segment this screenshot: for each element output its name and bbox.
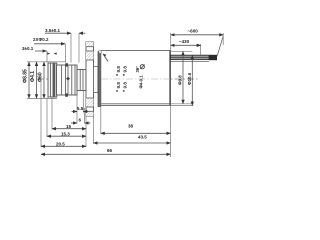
svg-text:3±0.1: 3±0.1	[22, 46, 34, 51]
svg-text:15: 15	[66, 124, 72, 129]
svg-text:6: 6	[79, 117, 82, 122]
svg-text:Φ10.6: Φ10.6	[187, 72, 192, 85]
svg-text:43.5: 43.5	[138, 135, 147, 140]
svg-text:9.8: 9.8	[123, 82, 128, 89]
svg-text:9.8: 9.8	[116, 66, 121, 73]
svg-text:3.5±0.1: 3.5±0.1	[45, 28, 60, 33]
svg-text:2XΦ0.2: 2XΦ0.2	[33, 37, 49, 42]
svg-text:Φ9.8: Φ9.8	[178, 75, 183, 85]
svg-text:9.8: 9.8	[123, 66, 128, 73]
svg-text:15.3: 15.3	[61, 131, 70, 136]
svg-text:66: 66	[107, 148, 113, 153]
svg-text:Φ4-0.1: Φ4-0.1	[139, 75, 144, 89]
svg-text:9.8: 9.8	[116, 82, 121, 89]
svg-text:38: 38	[128, 124, 134, 129]
svg-text:Φ8.85: Φ8.85	[23, 69, 29, 83]
svg-text:~430: ~430	[179, 39, 190, 44]
svg-text:~600: ~600	[188, 28, 199, 33]
svg-text:36°: 36°	[135, 66, 140, 73]
svg-text:5.5: 5.5	[77, 106, 84, 111]
svg-text:20.5: 20.5	[56, 142, 65, 147]
svg-text:Φ60: Φ60	[38, 72, 44, 82]
svg-text:Φ4.1: Φ4.1	[30, 71, 36, 82]
